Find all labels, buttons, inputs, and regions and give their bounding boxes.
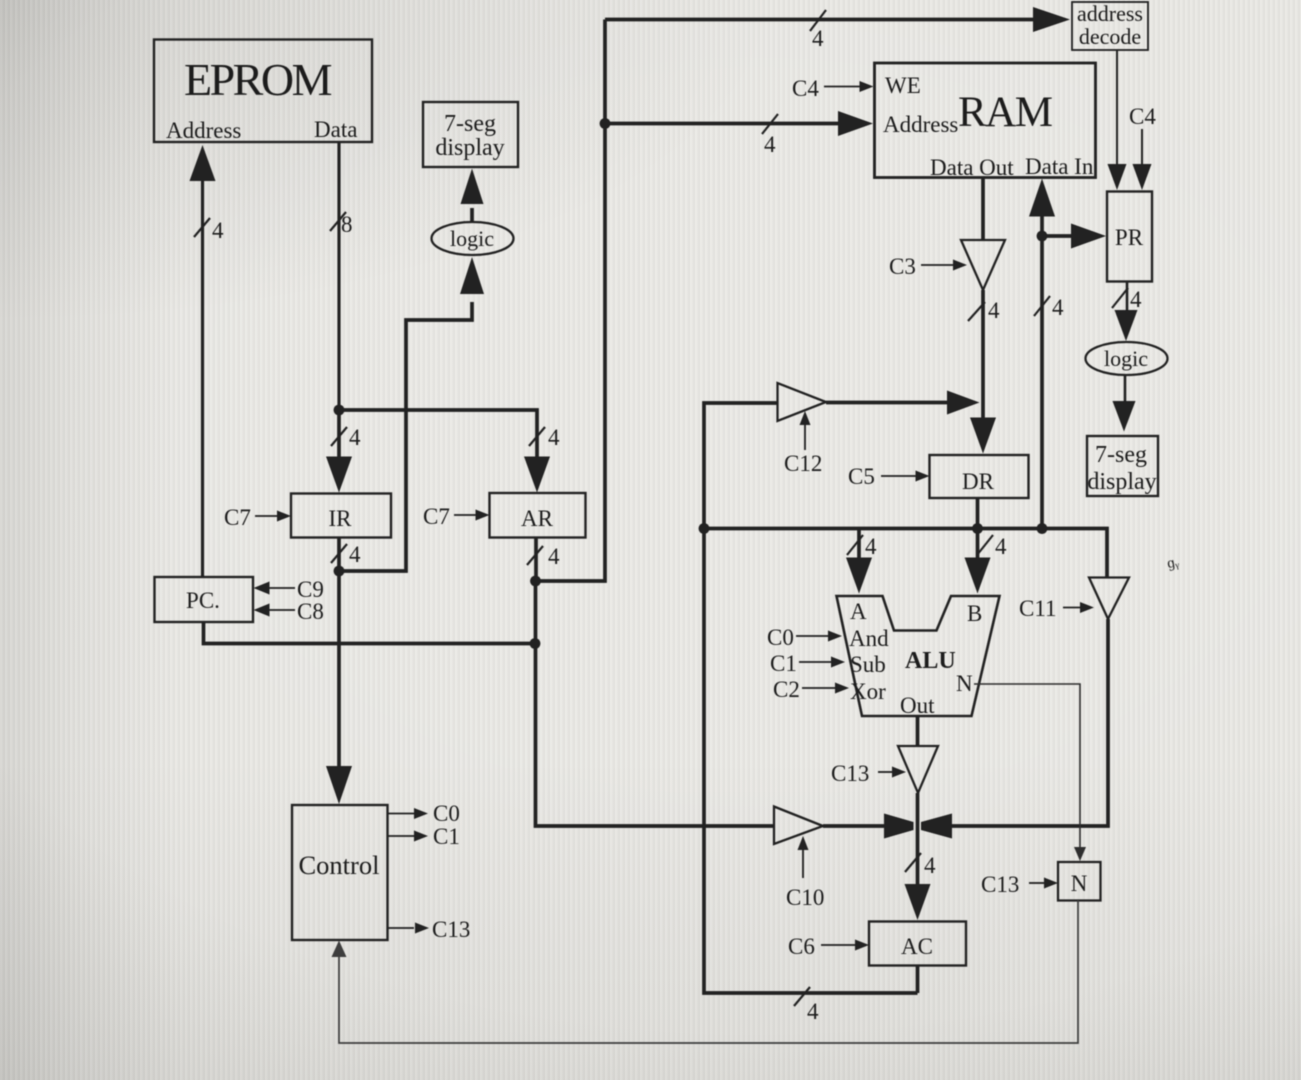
wire PR output down to logic	[1115, 282, 1138, 342]
bus width slash 4 at AR output	[527, 546, 543, 565]
svg-text:address: address	[1077, 1, 1143, 26]
svg-text:EPROM: EPROM	[184, 54, 332, 105]
svg-text:C13: C13	[432, 917, 470, 942]
wire bus into ALU B	[965, 529, 991, 594]
node junction Data In riser on bus	[1037, 523, 1048, 534]
svg-text:DR: DR	[962, 469, 995, 494]
wire bus into ALU A	[846, 529, 872, 594]
wire PC to EPROM Address	[190, 145, 216, 577]
svg-text:A: A	[850, 599, 867, 624]
wire internal bus down-right to C10 buffer	[536, 581, 775, 826]
svg-text:C1: C1	[433, 824, 460, 849]
register PR	[1107, 192, 1152, 282]
svg-text:8: 8	[341, 212, 353, 237]
register IR	[291, 494, 391, 538]
wire ALU input bus	[704, 529, 1107, 578]
block address decode	[1072, 2, 1148, 50]
RAM U2	[875, 63, 1096, 178]
node junction Data In / PR branch	[1037, 231, 1048, 242]
wire ALU N flag out	[974, 684, 1086, 861]
svg-text:Control: Control	[299, 850, 380, 880]
svg-text:Address: Address	[166, 118, 241, 143]
wire ALU Out down	[916, 716, 920, 746]
svg-text:WE: WE	[885, 73, 921, 98]
svg-text:Data: Data	[314, 117, 357, 142]
svg-text:C0: C0	[433, 801, 460, 826]
bus width slash 4 on Address wire	[194, 218, 210, 237]
wire buffer C11 output to AC input node	[921, 619, 1108, 839]
svg-text:And: And	[849, 626, 889, 651]
svg-text:4: 4	[995, 534, 1007, 559]
7-seg display box (left)	[423, 102, 518, 167]
svg-text:4: 4	[865, 534, 877, 559]
bus width slash 4 at AR input	[529, 427, 545, 446]
svg-text:C1: C1	[770, 651, 797, 676]
svg-text:C8: C8	[297, 599, 324, 624]
register AC	[869, 922, 966, 966]
wire AR output down	[534, 538, 538, 582]
svg-text:C7: C7	[423, 504, 450, 529]
svg-text:Data Out: Data Out	[930, 155, 1014, 180]
svg-text:IR: IR	[329, 506, 353, 531]
wire logic to 7-seg display	[470, 208, 474, 222]
control output C13	[388, 923, 430, 934]
svg-text:AR: AR	[521, 506, 554, 531]
bus width slash 4 at PR output	[1112, 288, 1128, 308]
svg-text:PR: PR	[1115, 225, 1144, 250]
bus width slash 4 on AC feedback	[794, 987, 810, 1006]
svg-text:logic: logic	[1104, 346, 1148, 371]
svg-text:ɡᵧ: ɡᵧ	[1166, 554, 1180, 572]
wire buffer C13 output down through AC node	[916, 793, 920, 885]
wire branch into PR	[1042, 224, 1106, 249]
control output C1	[388, 831, 429, 842]
wire AC output down	[916, 966, 920, 994]
bus width slash 4 on RAM address bus	[762, 114, 778, 134]
wire buffer C12 output into Data Out line	[826, 391, 980, 415]
wire top bus to address decode	[605, 7, 1070, 32]
bus width slash 4 at ALU B	[977, 535, 993, 555]
control signal C8 into PC	[254, 604, 296, 617]
bus width slash 4 below C3 buffer	[968, 302, 985, 321]
svg-text:display: display	[1087, 469, 1156, 495]
svg-text:Out: Out	[900, 693, 935, 718]
svg-text:C13: C13	[981, 872, 1019, 897]
svg-text:AC: AC	[901, 934, 933, 959]
wire Data into IR	[326, 410, 352, 493]
wire buffer C3 output down into DR	[970, 290, 996, 454]
svg-text:C13: C13	[831, 761, 869, 786]
wire branch to AR	[339, 410, 550, 493]
ALU U3	[837, 596, 1000, 716]
bus width slash 4 at ALU A	[847, 535, 863, 555]
tri-state buffer C13	[898, 746, 938, 793]
svg-text:C5: C5	[848, 464, 875, 489]
wire PC output to internal bus	[204, 622, 536, 644]
register AR	[490, 493, 586, 538]
svg-text:4: 4	[349, 542, 361, 567]
EPROM U1	[154, 40, 372, 143]
wire buffer C10 output into AC input node	[823, 814, 914, 839]
node junction AR output	[530, 576, 541, 587]
tri-state buffer C10	[774, 807, 823, 845]
svg-text:4: 4	[548, 425, 560, 450]
svg-text:display: display	[435, 135, 504, 161]
svg-text:Sub: Sub	[850, 652, 886, 677]
wire EPROM Data down	[337, 143, 340, 411]
node junction Data/AR branch	[334, 405, 345, 416]
svg-text:C4: C4	[792, 76, 819, 101]
flag register N	[1058, 862, 1101, 901]
svg-text:C0: C0	[767, 625, 794, 650]
wire bus into RAM Address	[605, 111, 873, 136]
bus width slash 4 on top bus	[810, 10, 826, 31]
node junction on riser for RAM address	[600, 118, 611, 129]
bus width slash 4 at IR output	[331, 544, 347, 563]
control signal C9 into PC	[254, 582, 296, 595]
wire DR output down to bus	[976, 498, 980, 529]
bus width slash 4 at IR input	[331, 427, 347, 446]
wire N flag feedback to Control	[332, 901, 1079, 1044]
svg-text:N: N	[1071, 871, 1088, 896]
svg-text:Data In: Data In	[1025, 154, 1094, 179]
svg-text:logic: logic	[450, 226, 494, 251]
wire node down into AC	[905, 884, 931, 920]
node junction PC bus / AR bus	[530, 638, 541, 649]
7-seg display box (right)	[1087, 436, 1158, 496]
svg-text:7-seg: 7-seg	[1095, 442, 1147, 468]
svg-text:PC.: PC.	[186, 588, 220, 613]
node junction IR output	[334, 566, 345, 577]
wire IR output down to Control	[326, 571, 352, 804]
wire AR output to RAM address bus riser	[536, 20, 606, 582]
arrow into logic oval	[460, 257, 484, 294]
wire IR output down	[337, 538, 341, 572]
svg-text:4: 4	[212, 218, 224, 243]
wire address decode to PR	[1108, 50, 1127, 190]
svg-text:decode: decode	[1079, 24, 1141, 49]
svg-text:N: N	[956, 671, 973, 696]
bus width slash 4 on Data In wire	[1034, 296, 1050, 316]
svg-text:C6: C6	[788, 934, 815, 959]
svg-text:B: B	[967, 601, 982, 626]
svg-text:RAM: RAM	[958, 89, 1052, 136]
logic oval (left)	[432, 222, 514, 255]
svg-text:4: 4	[812, 26, 824, 51]
svg-text:4: 4	[988, 298, 1000, 323]
svg-text:4: 4	[349, 425, 361, 450]
register PC	[155, 577, 254, 622]
svg-text:Xor: Xor	[850, 679, 886, 704]
svg-text:C4: C4	[1129, 104, 1156, 129]
tri-state buffer C3	[961, 240, 1005, 290]
wire logic to 7-seg display (right)	[1113, 375, 1136, 432]
svg-text:4: 4	[548, 544, 560, 569]
svg-text:C10: C10	[786, 885, 824, 910]
svg-text:Address: Address	[883, 112, 958, 137]
svg-text:4: 4	[1130, 287, 1142, 312]
svg-text:C2: C2	[773, 677, 800, 702]
svg-text:7-seg: 7-seg	[444, 111, 496, 137]
svg-text:4: 4	[1052, 295, 1064, 320]
logic oval (right)	[1086, 342, 1168, 375]
node junction DR output on bus	[972, 523, 983, 534]
wire IR output to logic decoder	[339, 302, 472, 571]
register DR	[930, 455, 1029, 498]
svg-text:C7: C7	[224, 505, 251, 530]
bus width slash 4 at AC input	[905, 853, 921, 872]
node junction feedback riser / ALU input bus	[699, 523, 710, 534]
tri-state buffer C12	[778, 383, 827, 421]
wire RAM Data Out down	[981, 178, 985, 241]
svg-text:4: 4	[807, 999, 819, 1024]
svg-text:ALU: ALU	[905, 648, 956, 674]
block Control	[292, 805, 388, 940]
tri-state buffer C11	[1089, 578, 1129, 620]
wire RAM Data In up	[1029, 179, 1055, 529]
wire AC feedback riser	[704, 403, 918, 993]
control output C0	[388, 808, 429, 819]
svg-text:4: 4	[924, 853, 936, 878]
svg-text:4: 4	[764, 132, 776, 157]
bus width slash 8 on Data wire	[330, 212, 346, 231]
svg-text:C12: C12	[784, 451, 822, 476]
svg-text:C3: C3	[889, 254, 916, 279]
svg-text:C11: C11	[1019, 596, 1057, 621]
